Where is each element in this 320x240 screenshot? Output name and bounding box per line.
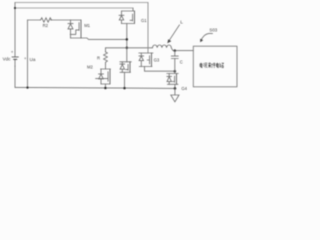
node junction dot M4 / ground on bottom rail bbox=[174, 87, 177, 90]
node junction dot center vertical / inductor wire bbox=[126, 47, 129, 50]
glyph 电 bbox=[216, 63, 218, 68]
node junction dot inductor output bbox=[174, 49, 177, 52]
mosfet of G3 gate bbox=[147, 56, 149, 64]
wire M4 branch middle vertical bbox=[174, 59, 176, 74]
svg-text:+: + bbox=[24, 56, 27, 61]
wire second rail bbox=[15, 7, 133, 9]
wire top rail bbox=[15, 2, 148, 4]
capacitor C top plate bbox=[171, 55, 178, 57]
svg-text:+: + bbox=[11, 49, 14, 54]
diode of Q3 bbox=[120, 62, 125, 73]
diode of M4 bbox=[167, 74, 172, 85]
node junction dot at left rail / second rail bbox=[14, 7, 16, 9]
glyph 电 bbox=[200, 63, 202, 68]
wire Ua branch vertical bbox=[27, 20, 29, 88]
svg-text:Ua: Ua bbox=[30, 57, 36, 62]
capacitor C bottom plate bbox=[171, 58, 178, 60]
ground bbox=[171, 88, 179, 101]
mosfet of M1 channel bbox=[80, 20, 82, 38]
glyph 路 bbox=[220, 63, 224, 67]
diode of G3 bbox=[139, 53, 144, 67]
diode of G1 bbox=[119, 11, 124, 24]
node junction dot G3 wire / M4 vertical bbox=[174, 70, 177, 73]
wire R2 branch horizontal bbox=[28, 19, 71, 21]
svg-text:R: R bbox=[97, 55, 100, 60]
transistor group M4 bottom staple and tail bbox=[167, 84, 178, 88]
source Vdc short plate bbox=[14, 58, 17, 60]
svg-text:L: L bbox=[180, 20, 183, 26]
transistor group G3 bottom staple bbox=[139, 66, 152, 68]
svg-text:C: C bbox=[180, 59, 183, 64]
svg-text:G4: G4 bbox=[181, 86, 187, 91]
transistor group M4 top staple bbox=[167, 73, 179, 75]
transistor group G1 bottom staple bbox=[122, 23, 135, 25]
node junction dot Ua branch on bottom rail bbox=[26, 86, 28, 88]
leader arrow for S03 bbox=[201, 33, 213, 40]
wire center vertical from G1 down bbox=[126, 24, 128, 62]
svg-text:M2: M2 bbox=[87, 65, 93, 70]
diode of M2 bbox=[99, 69, 104, 84]
wire inductor to load box bbox=[171, 48, 193, 51]
svg-text:S03: S03 bbox=[209, 28, 217, 33]
svg-text:R2: R2 bbox=[43, 23, 49, 28]
wire switch node horizontal to inductor bbox=[106, 47, 153, 49]
mosfet of M2 gate bbox=[96, 72, 109, 82]
mosfet of M1 gate bbox=[70, 23, 79, 35]
node junction dot center vertical / M1 wire bbox=[126, 38, 129, 41]
transistor group Q3 bottom staple and tail bbox=[120, 72, 131, 88]
mosfet of M2 channel bbox=[109, 69, 111, 84]
resistor R2 bbox=[41, 18, 52, 22]
glyph 样 bbox=[211, 63, 215, 68]
resistor R bbox=[104, 52, 108, 64]
transistor group M1 top staple bbox=[71, 19, 82, 21]
svg-text:M1: M1 bbox=[84, 23, 90, 28]
wire M4 branch upper vertical bbox=[174, 51, 176, 57]
transistor group M2 top staple bbox=[101, 68, 111, 70]
inductor L bbox=[153, 45, 172, 48]
mosfet of G1 channel bbox=[134, 11, 136, 24]
svg-text:Vdc: Vdc bbox=[3, 57, 12, 62]
wire left rail bbox=[14, 3, 16, 88]
mosfet of Q3 gate bbox=[126, 64, 129, 70]
mosfet of M4 channel bbox=[176, 74, 178, 85]
source Vdc long plate bbox=[12, 56, 18, 58]
svg-text:-: - bbox=[14, 64, 16, 69]
mosfet of Q3 channel bbox=[129, 62, 131, 73]
node junction dot M2 on bottom rail bbox=[104, 87, 107, 90]
node junction dot Q3 on bottom rail bbox=[123, 87, 126, 90]
mosfet of M4 gate bbox=[172, 76, 174, 82]
transistor group Q3 top staple bbox=[120, 61, 132, 63]
load box bbox=[193, 46, 237, 87]
wire right vertical from top rail bbox=[147, 3, 149, 54]
wire M1 bottom node to center vertical bbox=[71, 38, 127, 39]
transistor group M2 bottom staple and tail bbox=[101, 84, 110, 88]
diode of M1 bbox=[68, 20, 73, 38]
glyph 采 bbox=[208, 63, 211, 68]
wire bottom rail bbox=[15, 87, 176, 88]
label box text 电流采样电路 (hand drawn glyphs) bbox=[200, 63, 224, 68]
leader arrow for L bbox=[169, 25, 179, 41]
wire G3 bottom to M4 drain bbox=[145, 67, 175, 72]
wire R branch from switch node bbox=[105, 48, 107, 69]
transistor group G1 top staple and riser bbox=[122, 8, 135, 11]
svg-text:G3: G3 bbox=[154, 58, 160, 63]
glyph 流 bbox=[203, 63, 207, 67]
mosfet of G1 gate bbox=[130, 14, 133, 21]
transistor group G3 top staple bbox=[139, 52, 153, 54]
mosfet of G3 channel bbox=[151, 53, 153, 67]
svg-text:G1: G1 bbox=[141, 18, 147, 23]
